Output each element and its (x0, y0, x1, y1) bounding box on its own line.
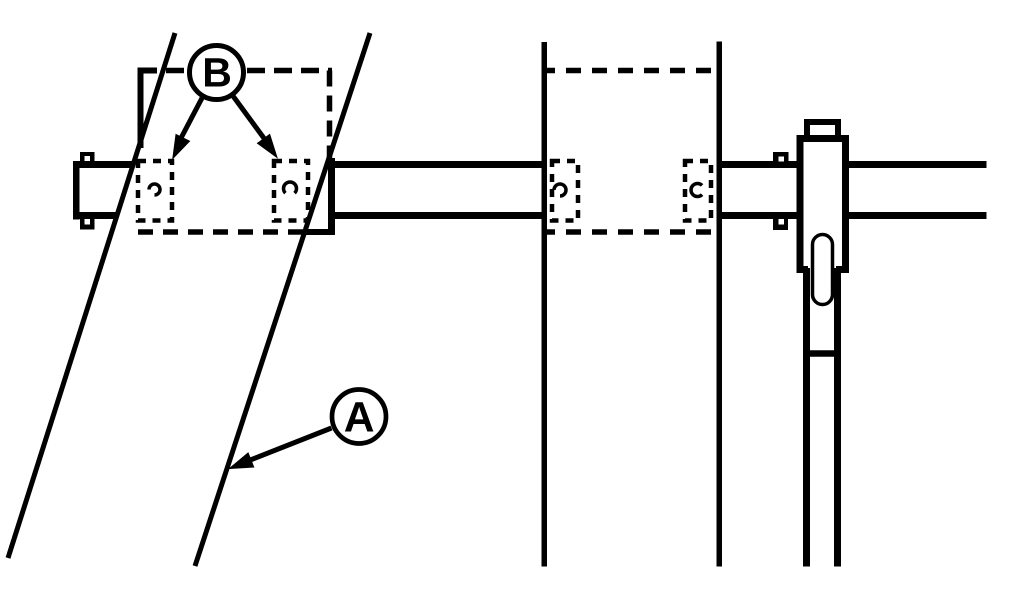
spring pin mark in SQ3 (554, 184, 566, 196)
callout letter A (345, 402, 374, 431)
clamp bottom opening (808, 263, 836, 276)
rail bottom edge left segment (73, 212, 118, 219)
plate B2 top edge dashed (between posts) (547, 68, 719, 74)
callout arrow B-right head (258, 134, 278, 157)
rail bottom edge right segment (722, 212, 987, 219)
vertical post right edge (717, 42, 723, 567)
callout circle A (332, 390, 386, 444)
clamp tube right wall (834, 268, 841, 567)
bracket square B hidden outline SQ4 (685, 161, 711, 221)
pole A right edge (195, 33, 370, 566)
plate B1 bottom edge dashed (138, 229, 305, 235)
clamp slot (obround) (813, 235, 833, 305)
bracket square B hidden outline SQ2 (274, 161, 308, 221)
rail tab bottom-right (773, 219, 788, 231)
rail tab top-right (773, 152, 789, 163)
spring pin mark in SQ1 (149, 184, 160, 195)
callout arrow A shaft (249, 428, 332, 461)
rail top edge right segment (722, 161, 987, 168)
rail tab bottom-left (80, 219, 95, 230)
callout arrow B-left shaft (180, 98, 202, 140)
rail tab top-left (80, 152, 95, 162)
plate B1 visible top-left corner (141, 71, 158, 149)
rail top edge centre segment (331, 161, 544, 168)
bracket square B hidden outline SQ1 (138, 161, 172, 221)
clamp body (800, 139, 846, 270)
callout arrow A head (230, 453, 254, 469)
plate B1 visible right edge across rail (328, 158, 335, 235)
rail left end flange (73, 161, 80, 220)
rail top edge left segment (73, 161, 134, 168)
clamp tube joint line (805, 350, 839, 357)
bracket square B hidden outline SQ3 (552, 161, 578, 221)
clamp tube left wall (803, 268, 810, 567)
clamp cap (807, 122, 838, 141)
pole A left edge (8, 33, 175, 558)
callout circle B (190, 46, 244, 100)
vertical post left edge (542, 42, 548, 567)
rail bottom edge centre segment (331, 212, 544, 219)
callout arrow B-left head (173, 135, 190, 159)
callout arrow B-right shaft (233, 96, 266, 141)
plate B1 top edge dashed (hidden behind pole A) (157, 68, 332, 74)
spring pin mark in SQ4 (691, 184, 702, 197)
callout letter B (205, 58, 230, 86)
plate B2 bottom edge dashed (between posts) (547, 229, 719, 235)
plate B1 visible bottom-right lip (303, 229, 335, 235)
spring pin mark in SQ2 (284, 182, 297, 193)
plate B1 right edge dashed upper part (327, 71, 333, 159)
